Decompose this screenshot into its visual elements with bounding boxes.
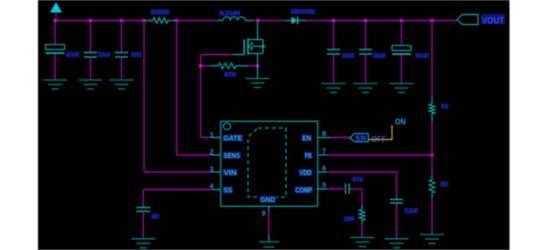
capacitor C3 105 <box>115 21 128 81</box>
label R1 <box>441 103 450 110</box>
label RSENS <box>151 9 171 16</box>
svg-text:8: 8 <box>322 129 326 138</box>
wire switch node to diode <box>258 20 286 22</box>
transistor Q1 N-MOSFET <box>244 22 265 66</box>
diode D1 SB1045L <box>286 17 306 24</box>
op-amp U1 controller IC body <box>221 121 318 206</box>
resistor R3 47K <box>202 63 256 69</box>
wire VIN net vertical to pin 3 <box>144 21 221 173</box>
svg-text:22uF: 22uF <box>373 53 385 59</box>
inductor L1 4.7uH <box>177 17 259 21</box>
svg-text:MC: MC <box>152 214 160 220</box>
capacitor C6 47uF (polarized) <box>392 21 411 84</box>
wire FB pin 7 to divider <box>318 154 432 156</box>
svg-text:5: 5 <box>322 181 326 190</box>
svg-text:GATE: GATE <box>224 135 243 142</box>
wire arrow stem <box>55 13 57 21</box>
pin name GATE <box>223 134 243 142</box>
pin name SS <box>223 186 234 194</box>
label C5 22uF <box>373 53 387 60</box>
label R2 <box>440 181 449 188</box>
pin name SENS <box>223 152 241 160</box>
capacitor C5 22uF <box>359 21 372 84</box>
label C7 2.2uF <box>404 208 419 215</box>
wire input bus <box>55 20 144 22</box>
ground under C7 <box>385 239 409 248</box>
label C6 47uF <box>415 53 430 60</box>
U1 pin-1 indicator circle <box>223 123 231 129</box>
label VOUT <box>481 14 505 25</box>
pin name EN <box>302 134 313 142</box>
wire GATE net vertical to pin 1 <box>201 66 221 138</box>
node output junction R1 <box>431 19 434 22</box>
pin name VIN <box>223 169 238 177</box>
label EN <box>355 134 367 142</box>
svg-text:EN: EN <box>302 135 311 142</box>
pin name VDD <box>299 169 313 177</box>
connector EN tag <box>350 134 369 142</box>
svg-text:EN: EN <box>356 135 366 142</box>
label C1 47uF <box>66 52 81 59</box>
wire EN pin 8 to EN tag <box>318 137 350 139</box>
capacitor C8 472 (series) <box>346 184 350 195</box>
label C4 22uF <box>342 53 356 60</box>
wire C8 to R4 <box>350 189 362 206</box>
svg-text:RSENS: RSENS <box>151 10 170 16</box>
pin name GND <box>260 196 277 204</box>
resistor RSENS <box>144 18 176 24</box>
svg-text:47uF: 47uF <box>416 53 429 59</box>
U1 inner dashed outline <box>248 128 286 197</box>
svg-text:22uF: 22uF <box>98 53 110 59</box>
label C8 472 <box>352 177 364 184</box>
node output junction C6 <box>400 19 403 22</box>
ground under R4 <box>351 238 375 247</box>
wire COMP pin 5 to compensation network <box>318 188 344 190</box>
svg-text:7: 7 <box>322 147 326 156</box>
wire diode to output bus <box>306 20 334 22</box>
ground under U1 pin 9 <box>259 242 280 247</box>
svg-text:SB1045L: SB1045L <box>291 9 316 15</box>
capacitor C4 22uF <box>327 21 340 84</box>
wire EN jumper (yellow) <box>369 125 393 140</box>
ground under Q1 source <box>246 79 270 88</box>
svg-text:R2: R2 <box>441 182 448 188</box>
svg-text:10K: 10K <box>344 217 354 223</box>
pin name FB <box>304 152 313 160</box>
svg-text:472: 472 <box>352 177 363 183</box>
node output junction C4 <box>332 19 335 22</box>
label MC <box>151 214 160 221</box>
svg-text:VOUT: VOUT <box>482 15 505 25</box>
svg-text:47uF: 47uF <box>66 52 79 58</box>
wire U1 GND pin 9 to ground <box>268 206 270 241</box>
label R4 10K <box>344 216 356 223</box>
label R3 47K <box>224 72 238 79</box>
svg-text:OFF: OFF <box>372 134 387 144</box>
svg-text:FB: FB <box>305 153 312 160</box>
svg-text:3: 3 <box>210 165 214 174</box>
resistor R4 10K <box>359 206 365 238</box>
wire output bus <box>334 20 458 22</box>
ground under C1 <box>43 80 67 89</box>
svg-text:R1: R1 <box>441 104 448 110</box>
node input junction C1 <box>54 19 57 22</box>
ground under C6 <box>390 84 414 93</box>
resistor R1 <box>429 21 435 156</box>
power input arrow VIN <box>50 2 62 13</box>
ground under R2 <box>420 235 444 244</box>
label C3 105 <box>131 52 142 59</box>
node input junction C2 <box>89 19 92 22</box>
node output junction C5 <box>364 19 367 22</box>
svg-text:4.7uH: 4.7uH <box>219 11 240 17</box>
ground under C2 <box>79 80 103 89</box>
label D1 SB1045L <box>291 9 317 16</box>
svg-text:9: 9 <box>262 209 266 218</box>
capacitor MC on SS pin <box>137 206 151 239</box>
svg-text:47K: 47K <box>224 72 236 78</box>
svg-text:VIN: VIN <box>224 170 237 177</box>
svg-text:VDD: VDD <box>299 170 311 177</box>
label C2 22uF <box>98 52 112 59</box>
node gate / R3 left junction <box>199 64 202 67</box>
capacitor C7 2.2uF on VDD <box>390 198 403 239</box>
resistor R2 <box>429 155 435 235</box>
svg-text:2.2uF: 2.2uF <box>405 209 418 215</box>
svg-text:ON: ON <box>395 117 406 126</box>
label L1 4.7uH <box>219 10 241 17</box>
wire SENS net vertical to pin 2 <box>177 21 221 156</box>
node RSENS right junction <box>175 19 178 22</box>
capacitor C1 47uF (polarized) <box>46 21 65 81</box>
svg-text:SENS: SENS <box>224 153 241 160</box>
capacitor C2 22uF <box>84 21 97 81</box>
node source / R3 right junction <box>256 64 259 67</box>
pin name COMP <box>295 186 314 194</box>
node switch junction <box>257 19 260 22</box>
wire source to ground <box>257 66 259 79</box>
svg-text:SS: SS <box>224 187 233 194</box>
node RSENS left junction <box>143 19 146 22</box>
node FB junction <box>431 154 434 157</box>
ground under C5 <box>354 84 378 93</box>
svg-text:6: 6 <box>322 164 326 173</box>
wire SS net to pin 4 <box>143 190 220 206</box>
svg-text:1: 1 <box>210 130 214 139</box>
svg-text:2: 2 <box>210 148 214 157</box>
wire VDD pin 6 to bypass cap <box>318 172 397 198</box>
svg-text:22uF: 22uF <box>342 53 354 59</box>
svg-text:105: 105 <box>131 53 141 59</box>
ground under C3 <box>110 80 134 89</box>
svg-text:GND: GND <box>260 197 275 204</box>
ground under MC <box>131 239 155 248</box>
node input junction C3 <box>120 19 123 22</box>
wire gate to MOSFET <box>201 55 245 66</box>
connector VOUT tag <box>457 15 478 25</box>
ground under C4 <box>322 84 346 93</box>
svg-text:COMP: COMP <box>295 187 312 194</box>
